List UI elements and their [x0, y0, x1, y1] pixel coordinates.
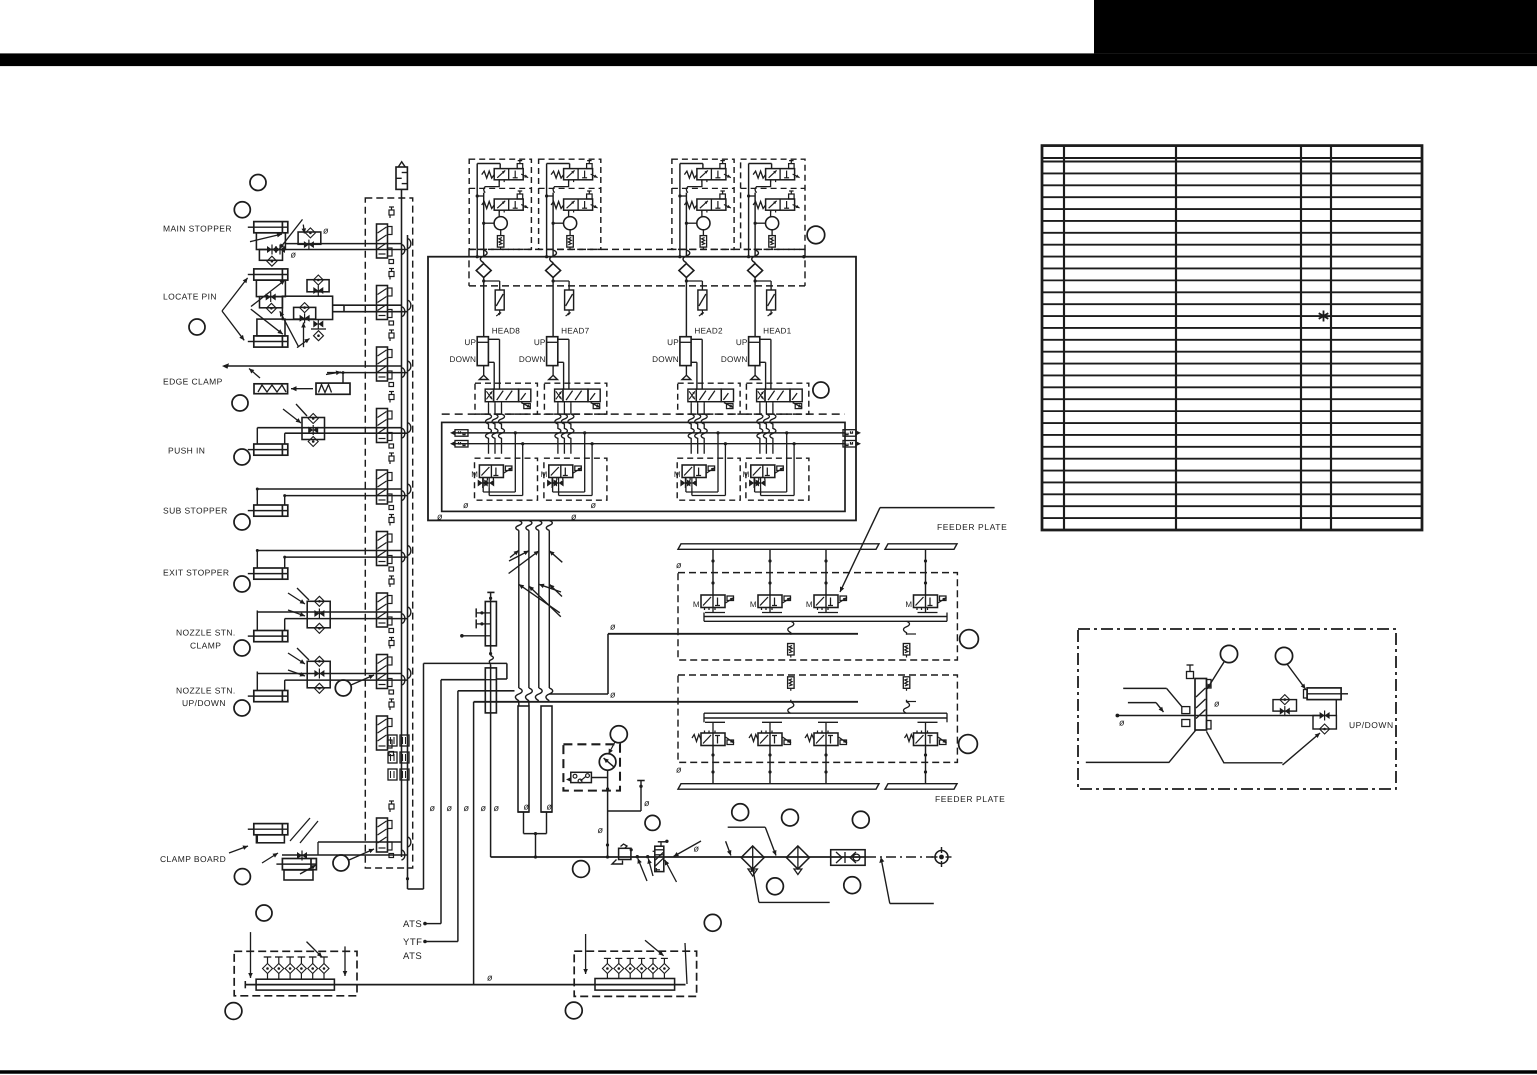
svg-text:DOWN: DOWN — [652, 355, 679, 364]
svg-text:ø: ø — [1119, 718, 1125, 728]
svg-text:CLAMP BOARD: CLAMP BOARD — [160, 854, 226, 864]
svg-text:ø: ø — [571, 512, 577, 522]
svg-text:UP/DOWN: UP/DOWN — [182, 698, 226, 708]
svg-text:EXIT STOPPER: EXIT STOPPER — [163, 568, 229, 578]
svg-text:MAIN STOPPER: MAIN STOPPER — [163, 224, 232, 234]
svg-text:ø: ø — [487, 973, 493, 983]
svg-text:ø: ø — [447, 803, 453, 813]
svg-text:DOWN: DOWN — [449, 355, 476, 364]
svg-text:PUSH IN: PUSH IN — [168, 446, 205, 456]
svg-text:ø: ø — [1214, 699, 1220, 709]
svg-text:UP: UP — [534, 338, 546, 347]
svg-text:SUB STOPPER: SUB STOPPER — [163, 506, 228, 516]
svg-text:ø: ø — [464, 803, 470, 813]
svg-text:ø: ø — [481, 803, 487, 813]
svg-text:YTF: YTF — [403, 937, 422, 948]
svg-text:ø: ø — [430, 803, 436, 813]
svg-text:ø: ø — [291, 250, 297, 260]
svg-text:M: M — [743, 470, 750, 479]
svg-text:FEEDER PLATE: FEEDER PLATE — [937, 522, 1007, 532]
svg-text:ø: ø — [437, 512, 443, 522]
svg-text:M: M — [750, 600, 757, 609]
svg-text:M: M — [471, 470, 478, 479]
svg-text:ATS: ATS — [403, 919, 422, 930]
svg-text:ø: ø — [591, 500, 597, 510]
svg-text:M: M — [541, 470, 548, 479]
svg-text:ø: ø — [676, 765, 682, 775]
svg-text:ø: ø — [547, 802, 553, 812]
svg-text:NOZZLE STN.: NOZZLE STN. — [176, 628, 236, 638]
svg-text:HEAD8: HEAD8 — [492, 327, 521, 336]
svg-text:M: M — [693, 600, 700, 609]
svg-text:HEAD2: HEAD2 — [694, 327, 723, 336]
svg-text:UP: UP — [464, 338, 476, 347]
svg-text:HEAD1: HEAD1 — [763, 327, 792, 336]
svg-text:UP: UP — [667, 338, 679, 347]
svg-text:ø: ø — [524, 802, 530, 812]
svg-text:ø: ø — [463, 500, 469, 510]
svg-text:M: M — [806, 600, 813, 609]
svg-text:ø: ø — [610, 622, 616, 632]
svg-text:NOZZLE STN.: NOZZLE STN. — [176, 686, 236, 696]
svg-text:LOCATE PIN: LOCATE PIN — [163, 292, 217, 302]
svg-text:ATS: ATS — [403, 951, 422, 962]
svg-text:ø: ø — [694, 844, 700, 854]
svg-text:HEAD7: HEAD7 — [561, 327, 590, 336]
svg-text:UP/DOWN: UP/DOWN — [1349, 720, 1394, 730]
svg-text:M: M — [674, 470, 681, 479]
svg-text:ø: ø — [323, 226, 329, 236]
svg-text:ø: ø — [644, 798, 650, 808]
svg-text:ø: ø — [598, 825, 604, 835]
svg-text:DOWN: DOWN — [721, 355, 748, 364]
svg-text:CLAMP: CLAMP — [190, 641, 221, 651]
svg-text:ø: ø — [494, 803, 500, 813]
svg-text:DOWN: DOWN — [519, 355, 546, 364]
svg-text:FEEDER PLATE: FEEDER PLATE — [935, 794, 1005, 804]
svg-text:ø: ø — [610, 690, 616, 700]
svg-text:UP: UP — [736, 338, 748, 347]
svg-text:M: M — [905, 600, 912, 609]
svg-text:ø: ø — [676, 560, 682, 570]
svg-text:EDGE CLAMP: EDGE CLAMP — [163, 377, 223, 387]
